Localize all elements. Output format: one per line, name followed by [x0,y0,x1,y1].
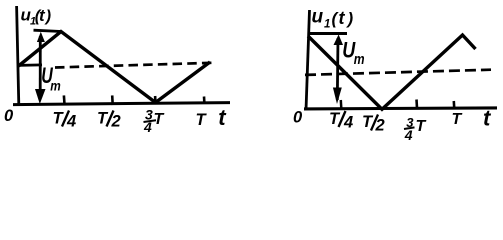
svg-text:): ) [44,8,51,25]
svg-text:4: 4 [404,127,413,143]
svg-text:t: t [339,8,346,28]
svg-text:4: 4 [66,113,76,131]
svg-text:T: T [196,111,208,129]
svg-text:T: T [416,118,427,135]
svg-text:m: m [354,52,365,68]
svg-text:2: 2 [375,117,385,135]
svg-text:0: 0 [293,109,303,127]
svg-text:0: 0 [4,107,14,125]
svg-text:2: 2 [111,113,121,131]
svg-text:m: m [50,78,61,94]
svg-text:u: u [312,7,324,28]
svg-text:1: 1 [324,18,330,30]
svg-text:4: 4 [143,119,152,135]
svg-text:): ) [346,9,354,28]
svg-text:4: 4 [343,114,353,132]
svg-text:T: T [154,111,165,128]
svg-text:T: T [452,111,463,128]
svg-text:t: t [218,105,227,130]
